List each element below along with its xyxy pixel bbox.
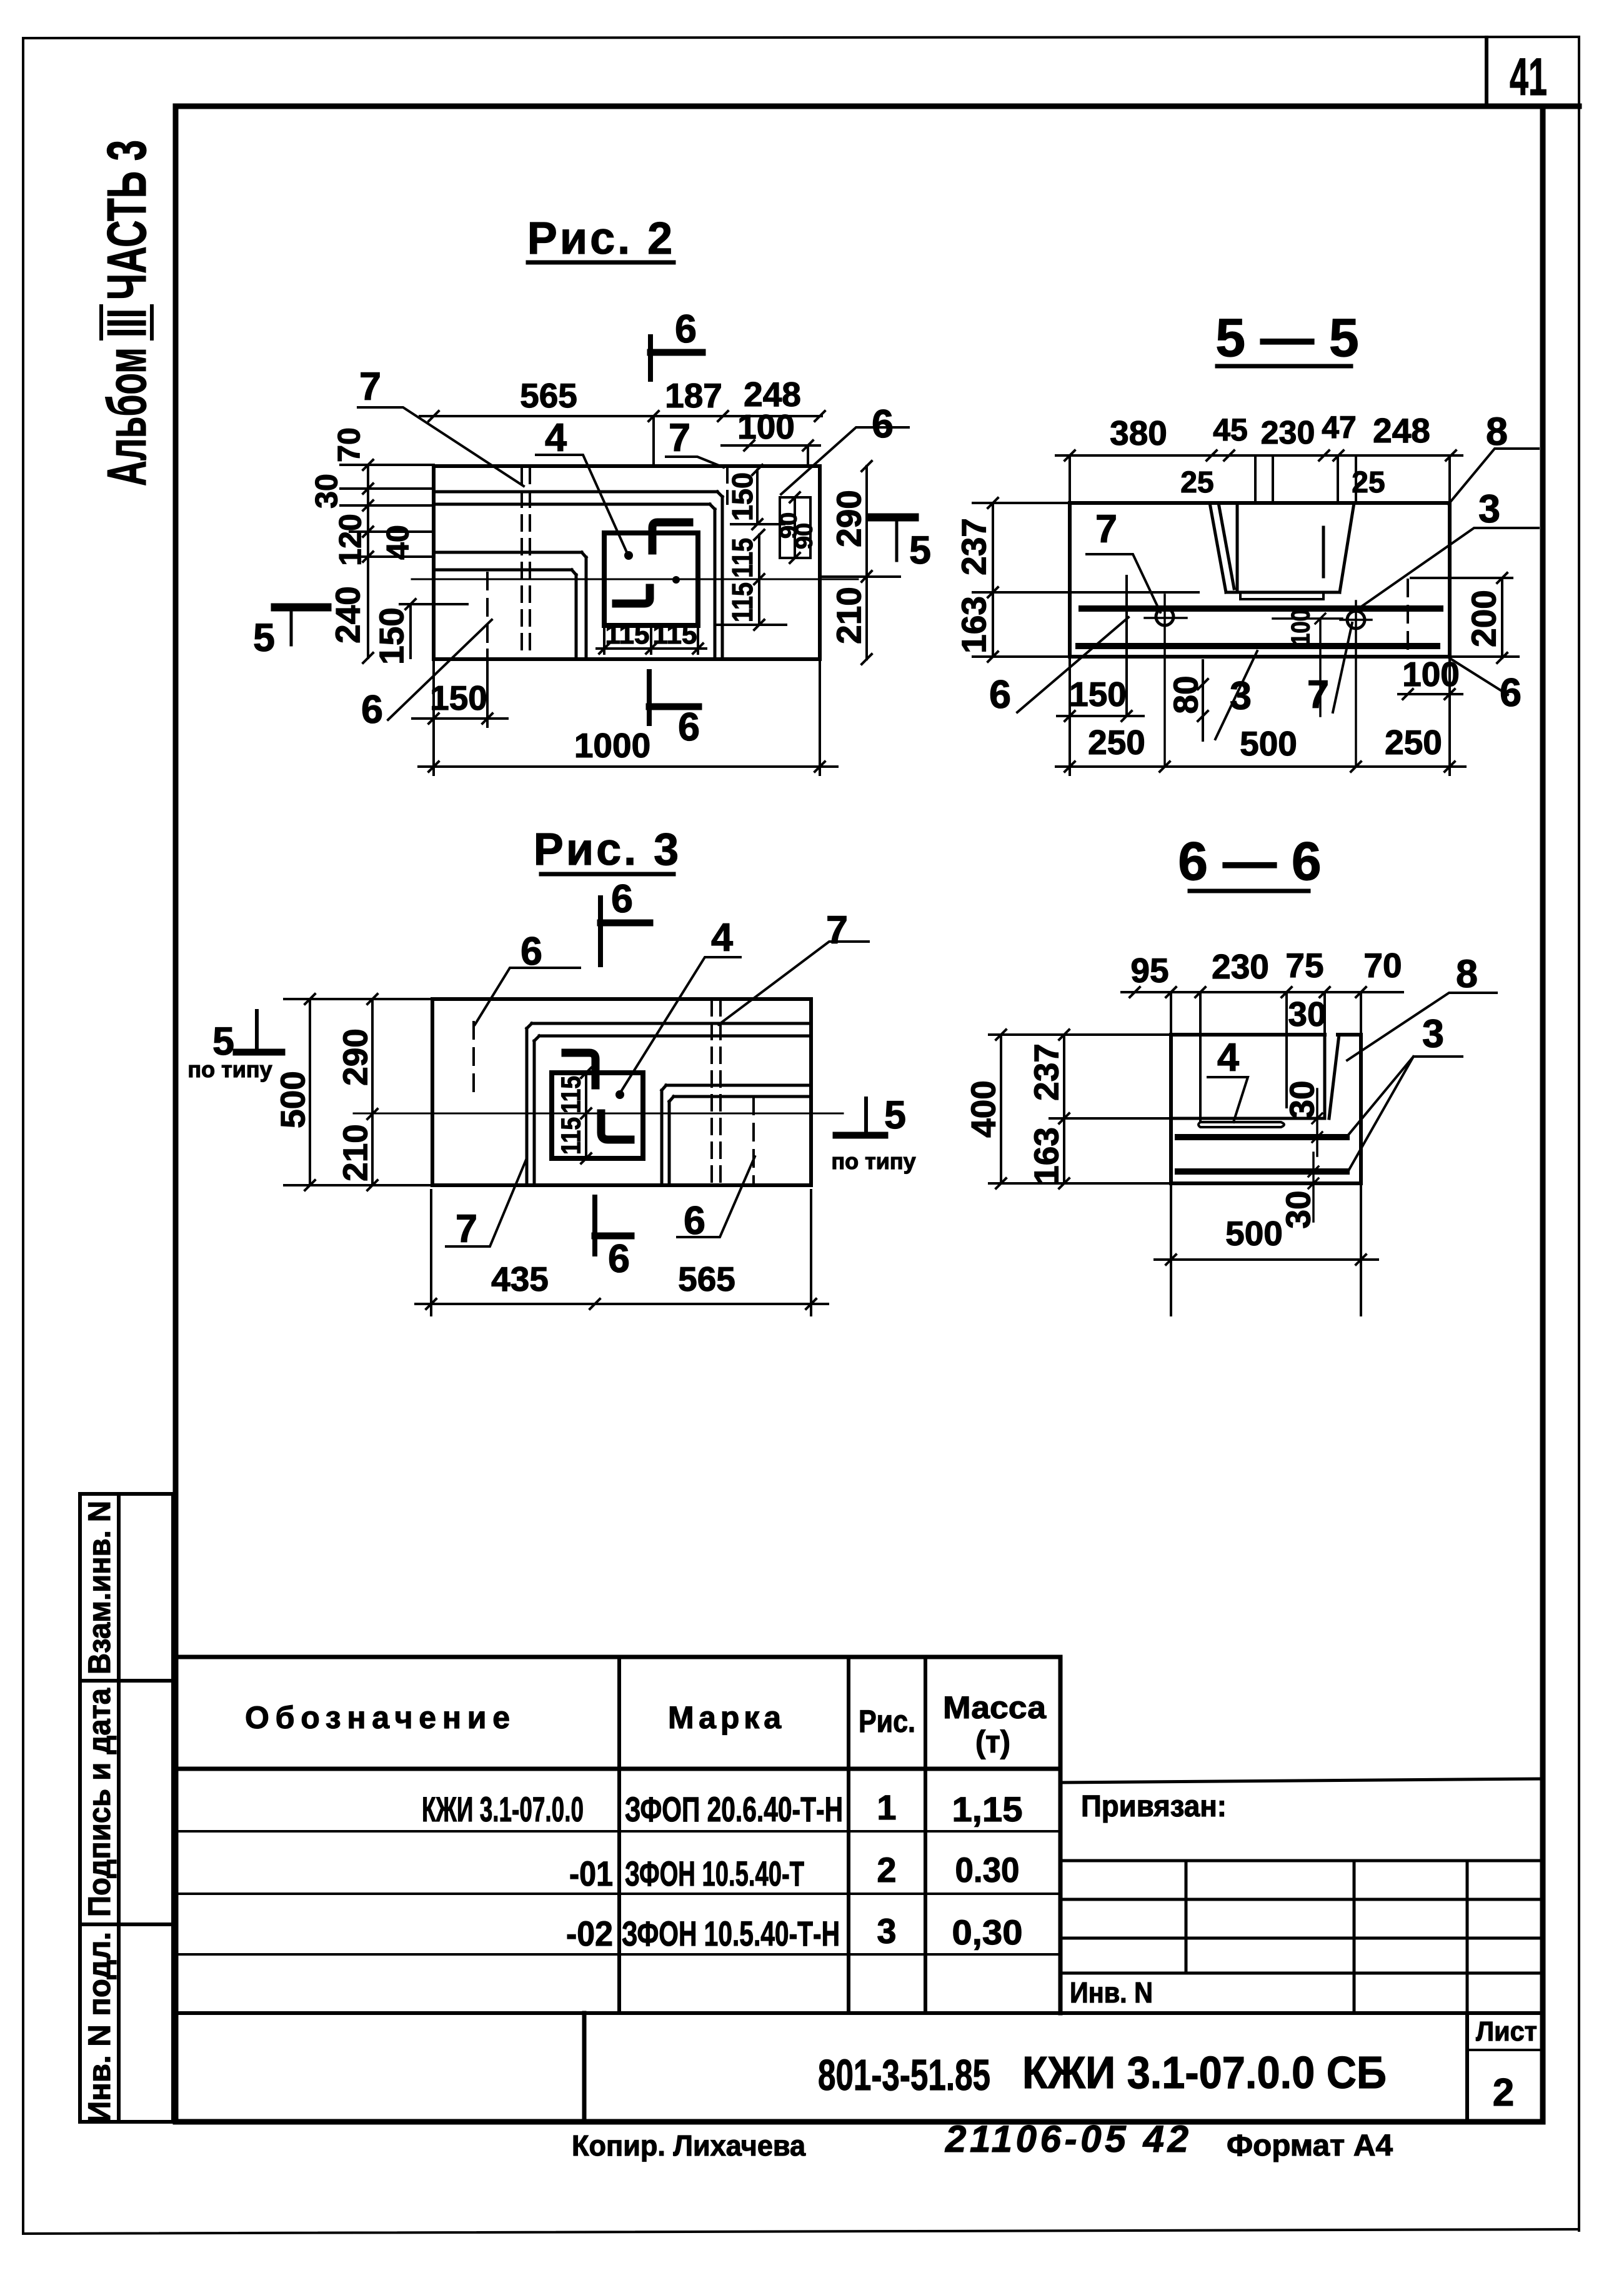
- svg-text:230: 230: [1212, 947, 1269, 986]
- notch slanted wall: [1329, 1035, 1339, 1118]
- svg-text:6: 6: [361, 688, 383, 732]
- svg-text:6 — 6: 6 — 6: [1178, 832, 1321, 892]
- fig2 left dim chain 70/30/120/240: [341, 460, 434, 663]
- svg-text:7: 7: [359, 365, 381, 409]
- svg-text:163: 163: [954, 596, 993, 654]
- fig3 hole square: [552, 1073, 643, 1158]
- fig3 rebar anchor bottom: [601, 1113, 630, 1140]
- svg-text:ЗФОП 20.6.40-Т-Н: ЗФОП 20.6.40-Т-Н: [625, 1789, 843, 1829]
- bottom dim 30 rotated: [1308, 1153, 1318, 1221]
- title block left edge: [582, 2013, 587, 2122]
- svg-text:150: 150: [430, 679, 487, 717]
- bottom right dim 100: [1398, 657, 1462, 775]
- svg-text:100: 100: [737, 407, 795, 446]
- svg-text:210: 210: [829, 587, 868, 644]
- svg-text:290: 290: [336, 1028, 374, 1086]
- fig2 section marker 5 right: [870, 514, 915, 522]
- fig2 slab outline: [434, 466, 820, 659]
- lift loop circle left: [1156, 608, 1173, 625]
- svg-text:8: 8: [1456, 952, 1478, 996]
- svg-text:3: 3: [1422, 1012, 1444, 1056]
- svg-text:115: 115: [605, 619, 650, 650]
- page number box 41: [1485, 37, 1488, 106]
- fig3 slab outline: [432, 999, 811, 1185]
- svg-text:Марка: Марка: [668, 1700, 782, 1735]
- svg-text:150: 150: [726, 472, 759, 521]
- fig3 centerline: [354, 1113, 843, 1115]
- bottom dim 150: [1057, 657, 1143, 775]
- svg-text:Инв. N: Инв. N: [1070, 1976, 1153, 2009]
- fig2 rebar anchor top: [652, 522, 689, 550]
- ledge line: [1171, 1117, 1325, 1120]
- svg-text:4: 4: [711, 916, 733, 960]
- svg-text:ЗФОН 10.5.40-Т: ЗФОН 10.5.40-Т: [625, 1854, 804, 1893]
- fig2 top edge band lines: [434, 492, 722, 657]
- svg-text:4: 4: [545, 416, 567, 460]
- svg-text:500: 500: [1240, 724, 1297, 763]
- svg-text:210: 210: [336, 1124, 374, 1181]
- svg-text:100: 100: [1286, 609, 1315, 645]
- stirrup line left: [1125, 576, 1128, 716]
- top dim line 95/230/75/70: [1122, 987, 1403, 1122]
- svg-text:290: 290: [829, 490, 868, 547]
- svg-text:ЗФОН 10.5.40-Т-Н: ЗФОН 10.5.40-Т-Н: [622, 1914, 840, 1953]
- svg-text:187: 187: [665, 376, 722, 415]
- bottom dim 80 rotated: [1198, 660, 1208, 740]
- section body outline: [1070, 503, 1450, 657]
- svg-text:Копир. Лихачева: Копир. Лихачева: [572, 2129, 805, 2162]
- svg-text:237: 237: [954, 518, 993, 575]
- svg-text:250: 250: [1088, 723, 1145, 762]
- svg-text:4: 4: [1217, 1036, 1239, 1080]
- svg-text:500: 500: [273, 1071, 312, 1128]
- svg-text:565: 565: [678, 1260, 735, 1298]
- svg-text:Инв. N подл.: Инв. N подл.: [82, 1932, 117, 2123]
- rebar bar bottom: [1079, 643, 1437, 649]
- lift loop circle right: [1347, 611, 1365, 629]
- Привязан box top line: [1060, 1779, 1543, 1783]
- svg-text:115: 115: [726, 582, 759, 622]
- svg-text:30: 30: [1278, 1190, 1317, 1228]
- left dim 237/163: [1050, 1030, 1171, 1188]
- svg-text:6: 6: [872, 402, 894, 446]
- svg-text:7: 7: [456, 1207, 477, 1251]
- svg-text:0,30: 0,30: [952, 1912, 1023, 1952]
- fig2 bottom dim 1000: [419, 659, 837, 775]
- fig2 right dim 150: [731, 465, 784, 529]
- Лист box: [1465, 2013, 1469, 2122]
- svg-text:45: 45: [1213, 412, 1248, 447]
- svg-text:III: III: [96, 309, 157, 337]
- svg-text:41: 41: [1510, 47, 1547, 106]
- fig2 section marker 6 top: [648, 337, 653, 379]
- fig2 left step lines: [434, 552, 586, 657]
- svg-text:248: 248: [1373, 411, 1430, 450]
- svg-text:435: 435: [491, 1260, 549, 1298]
- svg-text:-02: -02: [566, 1914, 613, 1953]
- fig2 section marker 6 bottom: [647, 672, 652, 724]
- svg-text:90: 90: [791, 523, 817, 549]
- svg-text:237: 237: [1027, 1043, 1065, 1101]
- fig3 top section marker 6: [598, 898, 603, 965]
- svg-text:Взам.инв. N: Взам.инв. N: [82, 1501, 117, 1674]
- rebar bar top: [1178, 1134, 1347, 1140]
- svg-text:-01: -01: [569, 1854, 613, 1893]
- svg-text:30: 30: [309, 474, 344, 509]
- svg-text:95: 95: [1130, 951, 1168, 990]
- bottom dim 250/500/250: [1056, 762, 1465, 772]
- svg-text:115: 115: [653, 619, 697, 650]
- svg-text:7: 7: [826, 908, 848, 952]
- fig2 hole square: [604, 533, 698, 625]
- fig2 bottom dim 115/115 under hole: [597, 625, 706, 654]
- svg-text:3: 3: [1478, 487, 1500, 531]
- loop axis line left: [1163, 595, 1166, 767]
- svg-text:801-3-51.85: 801-3-51.85: [818, 2051, 990, 2099]
- svg-text:5 — 5: 5 — 5: [1215, 308, 1358, 368]
- fig2 dashed anchor line lower-left: [486, 573, 489, 648]
- svg-text:Рис.: Рис.: [859, 1704, 915, 1739]
- svg-text:80: 80: [1166, 675, 1205, 714]
- svg-text:40: 40: [381, 525, 416, 560]
- vertical album text: Альбом III ЧАСТЬ 3: [96, 140, 157, 486]
- svg-text:по типу: по типу: [187, 1057, 272, 1082]
- svg-text:6: 6: [678, 705, 700, 749]
- mid dim 30 rotated: [1312, 1089, 1322, 1156]
- section body outline: [1171, 1035, 1361, 1183]
- table grid: [176, 1657, 1060, 2013]
- svg-text:5: 5: [884, 1093, 906, 1137]
- svg-text:6: 6: [675, 307, 697, 351]
- svg-text:Подпись и дата: Подпись и дата: [82, 1688, 117, 1917]
- inner drawing frame: [176, 106, 1579, 2122]
- svg-text:150: 150: [372, 607, 411, 665]
- svg-text:70: 70: [1363, 946, 1402, 985]
- svg-text:25: 25: [1180, 466, 1213, 499]
- svg-text:30: 30: [1282, 1080, 1321, 1118]
- svg-text:200: 200: [1464, 590, 1503, 647]
- svg-text:250: 250: [1385, 723, 1442, 762]
- svg-text:6: 6: [608, 1237, 630, 1281]
- notch left wall: [1323, 1035, 1327, 1118]
- svg-text:1,15: 1,15: [952, 1789, 1023, 1829]
- socket trapezoid: [1210, 503, 1354, 592]
- svg-text:25: 25: [1352, 466, 1385, 499]
- svg-text:230: 230: [1261, 415, 1315, 451]
- svg-text:7: 7: [1095, 507, 1117, 551]
- svg-text:Формат А4: Формат А4: [1227, 2129, 1393, 2162]
- fig2 dim 100: [722, 440, 820, 466]
- svg-text:2: 2: [877, 1850, 896, 1889]
- socket bottom plate: [1240, 592, 1323, 599]
- svg-text:47: 47: [1322, 410, 1357, 445]
- svg-text:Рис. 3: Рис. 3: [534, 825, 681, 875]
- left dim 400: [989, 1030, 1171, 1188]
- svg-text:8: 8: [1486, 410, 1508, 454]
- fig2 centerline: [412, 579, 858, 580]
- svg-text:115: 115: [726, 538, 759, 578]
- svg-text:6: 6: [611, 877, 633, 921]
- svg-text:Лист: Лист: [1476, 2016, 1537, 2047]
- svg-text:75: 75: [1285, 946, 1323, 985]
- svg-text:120: 120: [333, 514, 368, 565]
- fig3 dim 115/115 inside hole: [581, 1068, 591, 1163]
- fig2 center dot: [672, 576, 680, 584]
- svg-text:3: 3: [1230, 674, 1252, 718]
- svg-text:Обозначение: Обозначение: [245, 1700, 510, 1735]
- stamp grid: [1060, 1861, 1543, 2013]
- fig3 rebar anchor top: [565, 1053, 595, 1085]
- fig2 dashed joint lines: [522, 467, 727, 657]
- fig3 panel band top-left corner: [527, 1023, 811, 1185]
- fig3 step corner right: [662, 1085, 811, 1185]
- svg-text:(т): (т): [975, 1724, 1010, 1759]
- fig3 bottom section marker 6: [592, 1197, 597, 1254]
- svg-text:Масса: Масса: [943, 1690, 1047, 1725]
- bottom dim 500: [1155, 1183, 1378, 1315]
- fig2 sub-dim 150 inside: [400, 599, 467, 658]
- svg-text:400: 400: [964, 1080, 1002, 1138]
- svg-text:1: 1: [877, 1788, 896, 1827]
- svg-text:КЖИ 3.1-07.0.0 СБ: КЖИ 3.1-07.0.0 СБ: [1022, 2048, 1387, 2098]
- svg-text:5: 5: [253, 616, 275, 660]
- svg-text:21106-05 42: 21106-05 42: [945, 2118, 1188, 2160]
- svg-text:565: 565: [520, 376, 577, 415]
- top dim line 380/45/230/47/248: [1056, 450, 1462, 500]
- svg-text:115: 115: [555, 1076, 586, 1113]
- svg-text:150: 150: [1069, 675, 1127, 714]
- svg-text:0.30: 0.30: [955, 1850, 1020, 1889]
- svg-text:3: 3: [877, 1911, 896, 1951]
- embedded plate: [1198, 1122, 1284, 1127]
- fig3 dashed anchor right: [752, 1098, 755, 1185]
- svg-text:163: 163: [1027, 1127, 1065, 1185]
- fig3 bottom dim 435/565: [416, 1190, 828, 1315]
- fig2 right dim 290/210: [820, 461, 900, 664]
- rebar bar top: [1082, 605, 1440, 612]
- svg-text:КЖИ 3.1-07.0.0: КЖИ 3.1-07.0.0: [422, 1789, 584, 1829]
- svg-text:Привязан:: Привязан:: [1081, 1790, 1227, 1823]
- svg-text:по типу: по типу: [831, 1148, 915, 1174]
- svg-text:6: 6: [989, 673, 1011, 717]
- svg-text:2: 2: [1493, 2071, 1514, 2114]
- fig3 left dim 290/210: [367, 994, 377, 1190]
- rebar bar bottom: [1178, 1168, 1347, 1175]
- svg-text:240: 240: [328, 586, 367, 644]
- svg-text:100: 100: [1402, 655, 1460, 694]
- fig2 right dim 115/115: [715, 530, 786, 630]
- dashed line right: [1407, 580, 1409, 654]
- upper zone split line: [1070, 591, 1198, 594]
- svg-text:Альбом: Альбом: [96, 347, 157, 486]
- fig2 dim box 90/90: [780, 492, 810, 563]
- svg-text:ЧАСТЬ 3: ЧАСТЬ 3: [96, 140, 157, 300]
- svg-text:30: 30: [1288, 995, 1326, 1033]
- fig3 dashed joint pair: [712, 1000, 720, 1185]
- inner dim 100 rotated: [1273, 614, 1342, 716]
- right dim 200: [1411, 573, 1518, 663]
- fig3 left dim 500: [284, 994, 432, 1190]
- fig3 dashed anchor left: [472, 1022, 475, 1092]
- svg-text:500: 500: [1225, 1214, 1283, 1253]
- svg-text:380: 380: [1110, 414, 1167, 452]
- svg-text:7: 7: [1307, 673, 1329, 717]
- fig2 bottom dim 150: [412, 650, 507, 775]
- svg-text:5: 5: [909, 529, 931, 572]
- svg-text:70: 70: [332, 427, 367, 462]
- svg-text:Рис. 2: Рис. 2: [527, 214, 675, 264]
- fig2 section marker 5 left: [275, 604, 327, 612]
- svg-text:115: 115: [555, 1117, 586, 1155]
- svg-text:7: 7: [669, 416, 690, 460]
- left dim chain 237/163: [973, 498, 1070, 662]
- left rotated stamp strip: [80, 1494, 173, 2122]
- svg-text:1000: 1000: [574, 726, 650, 765]
- fig2 top dim line 565/187/248: [420, 411, 825, 464]
- fig2 rebar anchor bottom: [616, 588, 650, 604]
- loop axis line right: [1355, 601, 1357, 767]
